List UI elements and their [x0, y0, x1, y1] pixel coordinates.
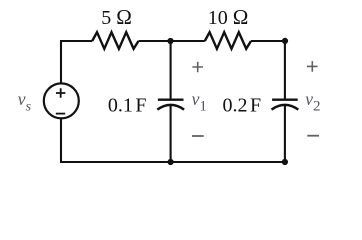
minus sign below v1: [192, 135, 204, 137]
plus sign above v1: [192, 62, 203, 73]
svg-text:0.2 F: 0.2 F: [223, 95, 262, 117]
node A junction dot: [167, 38, 173, 44]
minus sign below v2: [307, 135, 319, 137]
node C junction dot (bottom left branch): [168, 159, 174, 165]
wire: R2 to node B: [251, 40, 285, 42]
wire: branch1 upper (node A to C1 top plate): [170, 41, 172, 99]
wire: branch2 upper (node B to C2 top plate): [284, 41, 286, 99]
capacitor C1 top plate: [158, 98, 184, 100]
voltage source plus sign: [56, 88, 65, 97]
node B junction dot: [282, 38, 288, 44]
svg-text:v2: v2: [305, 89, 320, 114]
svg-text:v1: v1: [192, 89, 207, 114]
wire: branch1 lower (C1 bottom to bottom rail): [170, 105, 172, 162]
svg-text:vs: vs: [18, 89, 32, 115]
svg-text:5 Ω: 5 Ω: [101, 5, 132, 29]
node D junction dot (bottom right branch): [282, 159, 288, 165]
resistor R2 (10 ohm) zigzag: [205, 32, 251, 49]
wire: branch2 lower (C2 bottom to bottom rail): [284, 105, 286, 162]
wire: top-left corner from source top to R1: [61, 41, 92, 83]
capacitor C2 top plate: [272, 98, 298, 100]
resistor R1 (5 ohm) zigzag: [92, 32, 138, 49]
wire: R1 to node A to R2: [139, 40, 205, 42]
capacitor C1 curved plate: [157, 105, 184, 110]
svg-text:10 Ω: 10 Ω: [208, 5, 249, 29]
voltage source vs circle: [44, 83, 79, 118]
voltage source minus sign: [56, 113, 65, 115]
plus sign above v2: [307, 61, 318, 72]
capacitor C2 curved plate: [272, 105, 299, 110]
svg-text:0.1 F: 0.1 F: [108, 95, 147, 117]
wire: bottom rail from source bottom to node D: [61, 119, 285, 162]
